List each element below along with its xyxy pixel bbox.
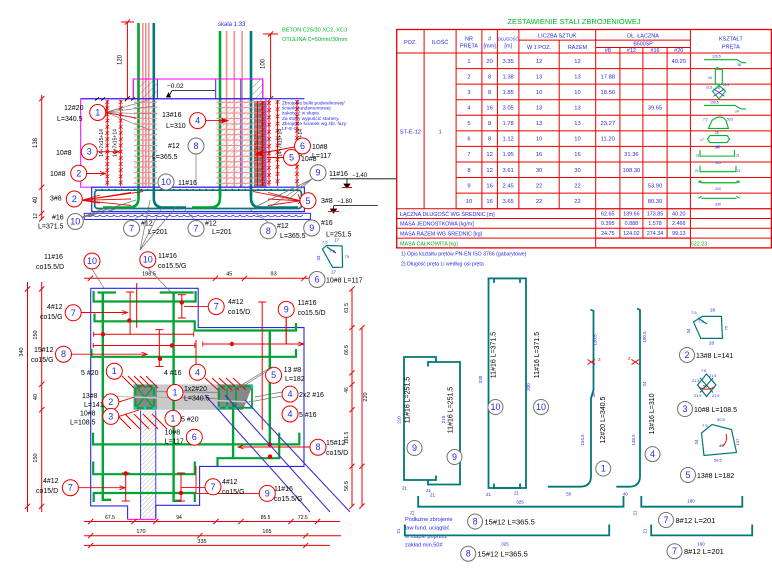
svg-text:39.65: 39.65	[648, 106, 663, 112]
grey leader callout 7a	[132, 210, 150, 221]
callout 10 11#16 middle	[158, 174, 174, 190]
svg-text:1.85: 1.85	[503, 90, 514, 96]
bar shape 8 second U	[405, 525, 609, 536]
plan red vertical x196 with T	[195, 340, 197, 372]
svg-text:8#12 L=201: 8#12 L=201	[676, 516, 716, 525]
svg-text:1: 1	[438, 130, 441, 136]
svg-text:L=201: L=201	[148, 229, 168, 236]
svg-text:40: 40	[623, 492, 629, 497]
svg-text:5 #16: 5 #16	[299, 412, 317, 419]
svg-text:8: 8	[266, 226, 271, 236]
svg-text:13+25x5+13: 13+25x5+13	[254, 134, 260, 162]
svg-text:173.85: 173.85	[647, 211, 664, 217]
svg-text:2) Długość pręta Li według osi: 2) Długość pręta Li według osi pręta	[401, 261, 484, 267]
bar shape 9 second - C bracket mirrored	[428, 362, 460, 485]
svg-text:120.5: 120.5	[712, 55, 721, 59]
plan red T vertical lower right	[180, 473, 182, 501]
wall section light hatch right	[216, 99, 262, 187]
svg-text:5 #20: 5 #20	[181, 417, 199, 424]
svg-text:11#16 L=371.5: 11#16 L=371.5	[491, 332, 498, 378]
svg-text:7: 7	[467, 152, 470, 158]
svg-text:13: 13	[574, 74, 580, 80]
svg-text:335: 335	[197, 539, 206, 545]
bar shape 1 break mark	[588, 360, 596, 365]
svg-text:7.6: 7.6	[701, 369, 706, 373]
svg-text:21.5: 21.5	[712, 394, 719, 398]
svg-text:2: 2	[108, 397, 113, 407]
plan green bar H6 y458.2 right	[218, 433, 280, 466]
svg-text:L=365.5: L=365.5	[152, 154, 178, 161]
svg-text:4: 4	[650, 449, 655, 459]
svg-text:13: 13	[574, 121, 580, 127]
svg-text:8: 8	[488, 137, 491, 143]
footing bottom bar teal left	[154, 190, 186, 208]
footing bottom bar green right	[192, 190, 220, 208]
svg-text:23.27: 23.27	[601, 121, 616, 127]
svg-text:16: 16	[536, 152, 542, 158]
bar shape 10 first	[489, 278, 521, 488]
plan red vertical x136.7 from top	[136, 283, 138, 328]
svg-text:14+7x15+14: 14+7x15+14	[99, 129, 105, 157]
svg-text:7.5: 7.5	[698, 319, 704, 324]
svg-text:58.5: 58.5	[714, 458, 723, 463]
left wall rebar bars above beam	[137, 23, 140, 196]
svg-text:40.20: 40.20	[671, 59, 686, 65]
svg-text:co15.5/D: co15.5/D	[298, 310, 326, 317]
svg-text:160: 160	[697, 542, 705, 547]
svg-text:3.61: 3.61	[503, 168, 514, 174]
svg-text:#12: #12	[627, 48, 636, 54]
svg-text:11.20: 11.20	[601, 137, 615, 143]
svg-text:34: 34	[708, 76, 712, 80]
svg-text:−0.02: −0.02	[167, 83, 184, 90]
svg-text:40: 40	[33, 196, 39, 203]
callout 6 10#8 L=117	[295, 138, 311, 154]
magenta casting-stage outline beam	[81, 99, 266, 187]
shape glyph row5 dome	[709, 117, 729, 129]
svg-text:#16: #16	[52, 215, 64, 222]
svg-text:12: 12	[536, 59, 542, 65]
svg-text:4#12: 4#12	[43, 478, 59, 485]
svg-text:50.5: 50.5	[717, 417, 726, 422]
svg-text:21.5: 21.5	[709, 374, 716, 378]
svg-text:ILOŚĆ: ILOŚĆ	[432, 38, 449, 46]
svg-text:75: 75	[345, 254, 350, 259]
plan green bar H4 y356.8	[92, 349, 297, 357]
plan red vertical x181.8 top	[181, 295, 183, 318]
svg-text:RAZEM: RAZEM	[568, 45, 588, 51]
svg-text:L=108.5: L=108.5	[70, 420, 96, 427]
footing bottom bar teal right	[251, 190, 298, 208]
plan green top short bar 1	[98, 291, 117, 293]
svg-text:6: 6	[314, 275, 319, 285]
section view of foundation beam and walls	[33, 19, 396, 250]
right wall outline with hatch	[251, 79, 263, 101]
svg-text:10: 10	[87, 256, 97, 266]
stirrup tick line left beam 2	[120, 100, 122, 186]
red leader lines to callouts left	[81, 312, 128, 314]
plan green bar H5 y444.4	[93, 433, 299, 445]
svg-text:ław fund. uciąglać: ław fund. uciąglać	[405, 526, 450, 532]
shape glyph row2 small stirrup rect	[715, 69, 722, 84]
shape glyph row1 bar with bend	[704, 60, 746, 63]
callout 9 #16 L=251.5 bottom	[304, 220, 320, 236]
svg-text:22: 22	[574, 199, 580, 205]
shape glyph row10 flat bar hooks	[699, 196, 740, 198]
svg-text:72.5: 72.5	[298, 515, 308, 521]
svg-text:11#16: 11#16	[329, 171, 348, 178]
svg-text:45: 45	[226, 272, 232, 278]
svg-text:8: 8	[488, 90, 491, 96]
callout 7 #12 L=201 first	[124, 221, 140, 237]
plan red vertical x159.3	[158, 330, 160, 367]
svg-text:13#16 L=310: 13#16 L=310	[649, 393, 656, 434]
red leader callout 7 right top	[184, 306, 208, 308]
svg-text:13: 13	[536, 106, 542, 112]
svg-text:34: 34	[686, 328, 691, 334]
svg-text:18.50: 18.50	[601, 90, 616, 96]
svg-text:0.395: 0.395	[601, 221, 615, 227]
svg-text:99.13: 99.13	[672, 231, 686, 237]
svg-text:21: 21	[695, 169, 699, 173]
bar shape 2 callout + label	[680, 348, 695, 363]
svg-text:11#16 L=251.5: 11#16 L=251.5	[448, 387, 455, 433]
svg-text:4: 4	[287, 409, 292, 419]
svg-text:56.5: 56.5	[344, 481, 350, 491]
svg-text:co15/D: co15/D	[326, 450, 348, 457]
svg-text:3#8: 3#8	[321, 198, 333, 205]
svg-text:21: 21	[514, 491, 520, 496]
svg-text:13: 13	[536, 74, 542, 80]
svg-text:21: 21	[486, 492, 492, 497]
svg-text:100.5: 100.5	[642, 331, 647, 343]
svg-text:11#16: 11#16	[298, 300, 317, 307]
svg-text:3: 3	[108, 411, 113, 421]
svg-text:5 #20: 5 #20	[81, 370, 99, 377]
svg-text:28: 28	[709, 341, 715, 346]
svg-text:5: 5	[271, 370, 276, 380]
svg-text:3: 3	[87, 147, 92, 157]
svg-text:2: 2	[684, 350, 689, 360]
svg-text:co15.5/D: co15.5/D	[36, 264, 64, 271]
grey leaders callout 5 plan	[240, 367, 274, 388]
wall tie tick line on grey wall	[257, 101, 259, 186]
svg-text:#12: #12	[168, 143, 180, 150]
plan callout 1b 5 #20 bottom	[165, 410, 181, 426]
svg-text:6: 6	[192, 432, 197, 442]
table sub-header lines LICZBA SZTUK	[519, 39, 596, 41]
svg-text:124.02: 124.02	[623, 231, 640, 237]
svg-text:15#12: 15#12	[326, 440, 346, 447]
svg-text:28: 28	[715, 131, 719, 135]
svg-text:L=141: L=141	[84, 402, 104, 409]
red leader callout 7 bottom left	[78, 487, 125, 489]
svg-text:POZ.: POZ.	[404, 40, 417, 46]
svg-text:62.65: 62.65	[601, 211, 615, 217]
svg-text:co15/G: co15/G	[222, 489, 245, 496]
svg-text:10#8: 10#8	[301, 156, 317, 163]
svg-text:9: 9	[315, 168, 320, 178]
svg-text:8: 8	[466, 549, 471, 559]
dimension 120 line left wall height	[126, 22, 128, 99]
svg-text:34: 34	[694, 439, 699, 445]
svg-text:325: 325	[501, 542, 509, 547]
red leader circle2 to column	[119, 397, 135, 402]
svg-text:5: 5	[685, 470, 690, 480]
svg-text:7: 7	[663, 515, 668, 525]
svg-text:10#8: 10#8	[80, 411, 96, 418]
red leader circle3 to column	[119, 410, 139, 416]
shape glyph row6 flat loop	[708, 136, 730, 143]
svg-text:139.66: 139.66	[623, 211, 640, 217]
svg-text:21.5: 21.5	[706, 85, 712, 89]
stirrup tick line right beam 2	[296, 100, 298, 186]
red leader callout 7 bottom right	[181, 487, 205, 489]
red fan from callout 5 to footing stirrups	[298, 194, 301, 201]
svg-text:7.6: 7.6	[330, 249, 336, 254]
svg-text:1.95: 1.95	[503, 152, 514, 158]
svg-text:−1.80: −1.80	[337, 199, 353, 205]
plan red vertical x130	[129, 292, 131, 335]
grey leader fan callout 9 right	[255, 179, 312, 207]
plan red dots lower	[124, 471, 128, 475]
band axis line grey	[110, 396, 250, 402]
plan green bar H1 y301 with up hooks	[94, 291, 196, 302]
table footer row lines	[397, 208, 772, 210]
svg-text:7: 7	[214, 302, 219, 312]
svg-text:7.5: 7.5	[691, 310, 697, 315]
wall link grid pink - left wall	[134, 101, 157, 103]
bar shape 3 star	[698, 374, 716, 397]
svg-text:8: 8	[467, 168, 470, 174]
red leader callout 9 bottom	[196, 492, 260, 494]
plan red vertical dim right outer 220	[361, 328, 363, 506]
bar shape 4 break mark	[632, 360, 640, 365]
wall strip edge lines	[140, 411, 142, 520]
svg-text:BETON C25/30 XC2, XC3: BETON C25/30 XC2, XC3	[282, 28, 347, 34]
plan red vertical dim right 61.5/66.5/46/191.5/56.5	[351, 289, 353, 506]
svg-text:10: 10	[536, 90, 542, 96]
svg-text:14+7x15+14: 14+7x15+14	[278, 129, 284, 157]
svg-text:13#8 L=141: 13#8 L=141	[696, 353, 733, 360]
plan callout 5 + 13 #8 L=182	[266, 367, 282, 383]
svg-text:12#20: 12#20	[64, 105, 84, 112]
svg-text:8: 8	[61, 349, 66, 359]
svg-text:4: 4	[287, 389, 292, 399]
grey leaders callout 4b	[255, 392, 282, 397]
svg-text:#12: #12	[141, 221, 153, 228]
svg-text:13: 13	[574, 106, 580, 112]
svg-text:7.5: 7.5	[703, 117, 708, 121]
svg-text:3#8: 3#8	[50, 196, 62, 203]
svg-text:8: 8	[488, 121, 491, 127]
svg-text:67.5: 67.5	[105, 515, 115, 521]
svg-text:210: 210	[441, 415, 446, 423]
svg-text:10: 10	[536, 402, 546, 412]
svg-text:148.5: 148.5	[631, 434, 636, 446]
bar shape 4 13#16	[616, 309, 640, 487]
svg-text:6: 6	[300, 141, 305, 151]
svg-text:#12: #12	[205, 221, 217, 228]
bar shape 6 polygon	[309, 238, 363, 288]
footing stirrup cage teal	[95, 190, 302, 208]
bar shape 8 first label	[468, 514, 483, 529]
svg-text:45: 45	[719, 443, 724, 448]
svg-text:1.578: 1.578	[648, 221, 662, 227]
svg-text:2.45: 2.45	[503, 183, 514, 189]
svg-text:DŁ. ŁĄCZNA: DŁ. ŁĄCZNA	[627, 34, 659, 40]
beam top line	[81, 98, 305, 100]
svg-text:38: 38	[591, 392, 596, 398]
svg-text:330: 330	[478, 375, 483, 383]
svg-text:B500SP: B500SP	[633, 42, 653, 48]
svg-text:13#8: 13#8	[82, 393, 98, 400]
plan view of foundation	[19, 252, 453, 549]
svg-text:50.5: 50.5	[727, 117, 733, 121]
svg-text:9: 9	[467, 183, 470, 189]
svg-text:10#8: 10#8	[56, 150, 72, 157]
svg-text:zakład min.50#: zakład min.50#	[405, 543, 444, 549]
svg-text:3.65: 3.65	[503, 199, 514, 205]
svg-text:[m]: [m]	[504, 44, 512, 50]
svg-text:138: 138	[33, 137, 39, 148]
svg-text:1.12: 1.12	[503, 137, 514, 143]
svg-text:Za stopy wypuścić startery.: Za stopy wypuścić startery.	[282, 116, 340, 122]
svg-text:13#16: 13#16	[162, 112, 182, 119]
svg-text:4: 4	[195, 367, 200, 377]
table outer border	[397, 30, 772, 248]
svg-text:1: 1	[95, 108, 100, 118]
svg-text:DŁUGOŚĆ: DŁUGOŚĆ	[498, 37, 519, 42]
footing outline	[92, 187, 305, 211]
plan green top short bar 2	[160, 291, 194, 293]
svg-text:22: 22	[574, 183, 580, 189]
svg-text:93: 93	[271, 272, 277, 278]
plan red dimension top 198.5/45/93	[84, 277, 311, 279]
svg-text:12#20 L=340.5: 12#20 L=340.5	[600, 396, 607, 443]
svg-text:7.5: 7.5	[322, 240, 328, 245]
svg-text:17.88: 17.88	[601, 74, 616, 80]
svg-text:2: 2	[76, 168, 81, 178]
callout 5 10#8	[284, 150, 300, 166]
bar shape 1 12#20	[548, 310, 594, 487]
bar shape 7 second label	[667, 544, 682, 559]
svg-text:Podłużne zbrojenie: Podłużne zbrojenie	[405, 517, 453, 523]
plan red T vertical lower left	[125, 473, 127, 501]
dimension 138/40 line at far left	[41, 95, 43, 220]
stirrup tick line right outer wall	[268, 101, 270, 186]
svg-text:15#12 L=365.5: 15#12 L=365.5	[478, 550, 528, 559]
bar shape 7 first label	[659, 513, 674, 528]
svg-text:80.30: 80.30	[648, 199, 663, 205]
svg-text:21: 21	[696, 154, 700, 158]
svg-text:3.05: 3.05	[503, 106, 514, 112]
svg-text:16: 16	[574, 152, 580, 158]
shape glyph row9 flat bar hooks	[699, 181, 740, 183]
svg-text:OTULINA C=50mm/30mm: OTULINA C=50mm/30mm	[282, 37, 348, 43]
magenta strip bottom	[128, 518, 156, 520]
svg-text:co15/D: co15/D	[36, 488, 58, 495]
svg-text:7: 7	[210, 482, 215, 492]
svg-text:274.34: 274.34	[647, 231, 664, 237]
svg-text:co15/G: co15/G	[31, 357, 54, 364]
svg-text:2: 2	[467, 74, 470, 80]
right wall rebar bars above beam	[219, 31, 222, 196]
svg-text:8: 8	[315, 442, 320, 452]
svg-text:134.5: 134.5	[580, 434, 585, 446]
column rebar dots cyan	[134, 385, 137, 388]
left wall outline with hatch	[140, 79, 158, 99]
svg-text:75: 75	[724, 325, 729, 330]
callout 7 #12 L=201 second	[188, 221, 204, 237]
svg-text:24: 24	[735, 109, 739, 113]
svg-text:1.38: 1.38	[503, 74, 514, 80]
svg-text:4#12: 4#12	[222, 479, 238, 486]
plan red internal dim y344 right segment	[203, 343, 304, 345]
band middle bar lines	[157, 392, 218, 393]
svg-text:137: 137	[735, 438, 740, 445]
svg-text:180: 180	[687, 499, 695, 504]
svg-text:16: 16	[486, 106, 492, 112]
svg-text:Zbrojenie ścianek wg zbr. fazy: Zbrojenie ścianek wg zbr. fazy	[282, 121, 347, 127]
grey leader fan callout 10 left	[80, 208, 105, 218]
svg-text:4: 4	[195, 116, 200, 126]
red hatch fan from callout 4 to band	[205, 378, 218, 390]
column stirrup square green	[136, 386, 155, 408]
plan red junction dots	[101, 332, 105, 336]
svg-text:330: 330	[526, 383, 531, 391]
svg-text:220: 220	[363, 392, 369, 401]
svg-text:21.5: 21.5	[723, 83, 729, 87]
svg-text:8: 8	[193, 141, 198, 151]
plan red vertical x262	[261, 302, 263, 430]
grade beam shaded band	[134, 384, 254, 409]
svg-text:13#8 L=182: 13#8 L=182	[697, 473, 734, 480]
svg-text:1: 1	[172, 388, 177, 398]
svg-text:1) Opis kształtu prętów PN-EN: 1) Opis kształtu prętów PN-EN ISO 3766 (…	[401, 252, 527, 258]
right stirrup group green	[219, 386, 252, 407]
svg-text:28: 28	[710, 308, 716, 313]
svg-text:−1.40: −1.40	[352, 173, 368, 179]
bar shape 8 second label	[461, 546, 476, 561]
svg-text:24.75: 24.75	[601, 231, 615, 237]
svg-text:7: 7	[68, 483, 73, 493]
plan green bar H8 y493 down hooks	[94, 493, 195, 502]
right group rebar dots	[218, 385, 221, 388]
shape glyph row8 U-bar wide	[700, 166, 736, 172]
svg-text:1x2#20: 1x2#20	[184, 386, 207, 393]
svg-text:21: 21	[430, 493, 436, 498]
svg-text:#8: #8	[605, 48, 611, 54]
svg-text:180: 180	[714, 146, 720, 150]
svg-text:100.5: 100.5	[710, 100, 719, 104]
plan callout 8 right 15#12	[310, 439, 326, 455]
svg-text:MASA RAZEM WG ŚREDNIC [kg]: MASA RAZEM WG ŚREDNIC [kg]	[400, 230, 483, 238]
svg-text:10: 10	[143, 255, 153, 265]
svg-text:11#16: 11#16	[158, 253, 177, 260]
plan green bar vertical C	[232, 402, 234, 458]
svg-text:50: 50	[566, 492, 572, 497]
svg-text:L=371.5: L=371.5	[38, 224, 64, 231]
svg-text:5: 5	[289, 153, 294, 163]
svg-text:7.5: 7.5	[702, 423, 708, 428]
svg-text:13: 13	[536, 121, 542, 127]
grey leader callout 7b	[185, 210, 196, 221]
bar shape 2 polygon	[694, 316, 723, 338]
blinding layer strip	[84, 213, 310, 219]
svg-text:11#16 L=371.5: 11#16 L=371.5	[534, 332, 541, 378]
svg-text:4#12: 4#12	[47, 304, 63, 311]
